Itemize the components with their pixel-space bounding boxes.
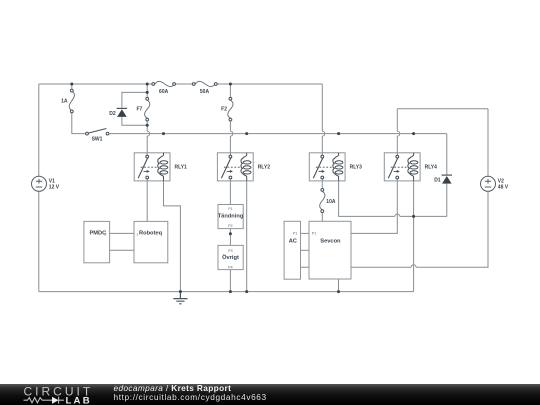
fuse F7 bbox=[145, 97, 150, 121]
svg-text:D1: D1 bbox=[434, 177, 441, 183]
wire RLY3 switch to 10A fuse bbox=[321, 180, 323, 189]
svg-text:F2: F2 bbox=[221, 106, 227, 112]
node ground bus Ovrigt bbox=[229, 290, 232, 293]
fuse 1A bbox=[69, 89, 74, 113]
wire F7 column top bbox=[146, 84, 148, 97]
wire 1A fuse column bbox=[72, 84, 86, 134]
svg-text:1A: 1A bbox=[61, 98, 68, 104]
svg-text:Roboteq: Roboteq bbox=[139, 230, 163, 236]
node ground bus RLY2 coil bbox=[245, 290, 248, 293]
ground bbox=[173, 292, 187, 304]
box Roboteq bbox=[134, 221, 168, 262]
svg-text:P1: P1 bbox=[228, 207, 232, 211]
svg-text:F7: F7 bbox=[136, 106, 142, 112]
wire Sevcon bottom to ground bus bbox=[338, 279, 340, 292]
wire SW1 to coil bus bbox=[109, 133, 447, 135]
wire AC-Sevcon pin1 bbox=[301, 232, 310, 234]
wire RLY4 switch to Sevcon bbox=[351, 180, 397, 234]
wire V2 top bbox=[487, 109, 489, 177]
footer bar bbox=[0, 384, 540, 405]
box Sevcon bbox=[309, 221, 351, 279]
wire top bus left segment bbox=[39, 83, 152, 85]
wire V1 bottom to ground bus bbox=[38, 191, 40, 291]
node D2 bottom junction bbox=[146, 124, 149, 127]
box Ovrigt bbox=[218, 245, 243, 269]
svg-text:RLY3: RLY3 bbox=[350, 164, 363, 170]
box Tandning bbox=[218, 205, 244, 229]
svg-text:48 V: 48 V bbox=[498, 184, 509, 190]
svg-text:P1: P1 bbox=[312, 231, 316, 235]
wire hop F2 over coil bus bbox=[230, 131, 232, 136]
switch SW1 bbox=[86, 129, 109, 136]
wire AC-Sevcon pin3 bbox=[301, 266, 310, 268]
svg-text:P1: P1 bbox=[293, 231, 297, 235]
wire between 60A and 50A fuses bbox=[175, 83, 192, 85]
node coil bus RLY2 bbox=[245, 132, 248, 135]
box PMDC bbox=[84, 221, 110, 262]
diode D2 bbox=[117, 108, 127, 117]
svg-text:Övrigt: Övrigt bbox=[222, 254, 239, 261]
wire RLY1 coil return to ground bbox=[164, 181, 181, 292]
wire coil bus drop to D1 bbox=[446, 134, 448, 175]
voltage source V1 bbox=[32, 176, 47, 191]
svg-text:P2: P2 bbox=[228, 224, 232, 228]
wire V2 bottom return to Sevcon bbox=[351, 191, 488, 267]
logo resistor and diode bbox=[24, 397, 65, 404]
wire top bus drop to RLY3 bbox=[321, 84, 323, 155]
wire hop V2 return over RLY4 coil column bbox=[411, 265, 416, 267]
wire AC-Sevcon pin2 bbox=[301, 249, 310, 251]
fuse 10A bbox=[320, 189, 325, 213]
svg-text:RLY2: RLY2 bbox=[258, 164, 271, 170]
svg-text:SW1: SW1 bbox=[92, 137, 103, 143]
wire left rail V1 top bbox=[38, 84, 40, 176]
svg-text:http://circuitlab.com/cydgdahc: http://circuitlab.com/cydgdahc4v663 bbox=[114, 392, 267, 402]
relay RLY1 bbox=[134, 153, 187, 181]
node coil return RLY4 bbox=[412, 215, 415, 218]
wire PMDC-Roboteq pin1 bbox=[110, 232, 134, 234]
node top bus / F2 junction bbox=[229, 83, 232, 86]
svg-text:12 V: 12 V bbox=[49, 184, 60, 190]
wire RLY1 switch to Roboteq bbox=[146, 180, 148, 221]
wire V2 feed to RLY4 switch top bbox=[397, 109, 488, 156]
svg-text:1: 1 bbox=[104, 233, 106, 237]
wire RLY4 coil return column bbox=[413, 181, 415, 292]
wire F2 bottom to RLY2 switch bbox=[229, 121, 231, 155]
node top bus / 1A junction bbox=[70, 83, 73, 86]
fuse 60A bbox=[152, 81, 176, 86]
relay RLY3 bbox=[309, 153, 362, 181]
svg-text:50A: 50A bbox=[200, 89, 210, 95]
wire Ovrigt to ground bus bbox=[229, 270, 231, 292]
node ground bus Sevcon bbox=[337, 290, 340, 293]
box AC bbox=[284, 221, 300, 279]
svg-text:RLY1: RLY1 bbox=[175, 164, 188, 170]
relay RLY4 bbox=[384, 153, 437, 181]
diode D1 bbox=[442, 175, 452, 184]
wire top bus right segment bbox=[217, 83, 322, 85]
svg-text:D2: D2 bbox=[109, 111, 116, 117]
wire F7 bottom to RLY1 switch bbox=[146, 121, 148, 155]
wire F2 column top bbox=[229, 84, 231, 97]
wire RLY2 switch to Tandning bbox=[229, 180, 231, 205]
wire D2 branch bbox=[122, 92, 147, 125]
wire Tandning to Ovrigt bbox=[229, 229, 231, 246]
node D2 top junction bbox=[146, 91, 149, 94]
wire hop F7 over coil bus bbox=[147, 131, 149, 136]
svg-text:RLY4: RLY4 bbox=[425, 164, 438, 170]
node coil bus RLY4 bbox=[412, 132, 415, 135]
node coil bus RLY3 bbox=[337, 132, 340, 135]
node Tandning-Ovrigt bbox=[229, 232, 232, 235]
svg-text:Sevcon: Sevcon bbox=[320, 239, 341, 245]
wire hop RLY4 feed over coil bus bbox=[397, 131, 399, 136]
wire RLY2 coil return to ground bbox=[246, 181, 248, 292]
wire ground bus bbox=[39, 291, 414, 293]
svg-text:1: 1 bbox=[136, 233, 138, 237]
fuse F2 bbox=[228, 97, 233, 121]
voltage source V2 bbox=[481, 176, 496, 191]
wire hop coil return over RLY4 switch wire bbox=[395, 214, 400, 216]
wire RLY3 coil return bbox=[339, 181, 447, 217]
node top bus / F7 junction bbox=[146, 83, 149, 86]
svg-text:LAB: LAB bbox=[66, 395, 92, 405]
svg-text:Tändning: Tändning bbox=[218, 214, 244, 220]
wire D1 bottom bbox=[446, 184, 448, 217]
svg-text:P4: P4 bbox=[228, 265, 232, 269]
svg-text:60A: 60A bbox=[159, 89, 169, 95]
fuse 50A bbox=[192, 81, 217, 86]
svg-text:AC: AC bbox=[289, 239, 297, 245]
wire hop RLY3 feed over coil bus bbox=[322, 131, 324, 136]
wire 10A fuse to Sevcon top bbox=[321, 213, 323, 222]
node ground symbol junction bbox=[179, 290, 182, 293]
relay RLY2 bbox=[217, 153, 270, 181]
node coil bus RLY1 bbox=[162, 132, 165, 135]
wire PMDC-Roboteq pin2 bbox=[110, 249, 134, 251]
svg-text:P3: P3 bbox=[228, 249, 232, 253]
svg-text:10A: 10A bbox=[326, 199, 336, 205]
